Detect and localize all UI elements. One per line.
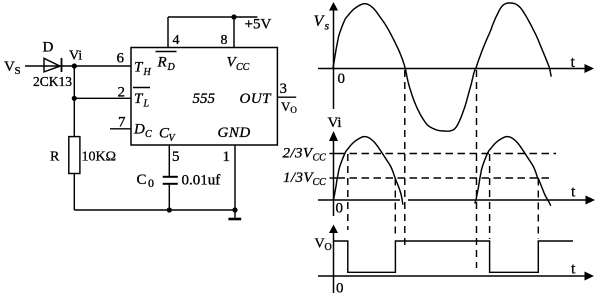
wire stub pin 7 bbox=[110, 128, 131, 130]
label C0 bbox=[137, 172, 155, 190]
svg-text:1/3V: 1/3V bbox=[283, 170, 314, 186]
svg-text:GND: GND bbox=[218, 125, 251, 141]
wire cap to bottom bbox=[168, 184, 170, 210]
svg-text:s: s bbox=[325, 19, 330, 33]
dashed line at Vs rising crossing bbox=[476, 70, 478, 268]
plot Vs label bbox=[314, 13, 330, 33]
junction at ground bbox=[232, 207, 237, 212]
plot Vi vertical axis bbox=[329, 131, 338, 216]
plot Vo label bbox=[315, 237, 332, 254]
svg-text:V: V bbox=[4, 59, 15, 75]
svg-text:0: 0 bbox=[336, 201, 344, 217]
pin TL label bbox=[133, 88, 150, 110]
svg-text:0: 0 bbox=[338, 71, 346, 87]
svg-text:Vi: Vi bbox=[328, 115, 342, 131]
bottom wire bbox=[74, 209, 235, 211]
plot Vi t axis bbox=[318, 196, 595, 205]
svg-text:D: D bbox=[167, 62, 176, 73]
svg-text:CC: CC bbox=[313, 177, 327, 188]
pin 3 wire bbox=[277, 96, 296, 98]
dashed line at first Vs zero crossing bbox=[404, 70, 406, 250]
waveform Vi hump 1 bbox=[334, 137, 403, 205]
waveform Vo square wave bbox=[334, 241, 574, 272]
svg-text:C: C bbox=[137, 172, 147, 188]
dashed line Vo falling edge 1 bbox=[347, 154, 349, 230]
threshold 1/3 Vcc dashed level bbox=[330, 177, 553, 179]
waveform Vs sine bbox=[333, 3, 551, 131]
pin 8 wire bbox=[233, 17, 235, 48]
svg-text:L: L bbox=[143, 99, 150, 110]
node Vi junction bbox=[72, 63, 77, 68]
dashed line Vo rising edge 2 bbox=[537, 179, 539, 240]
pin VCC label bbox=[227, 55, 250, 74]
svg-text:D: D bbox=[43, 40, 54, 56]
svg-text:6: 6 bbox=[117, 51, 125, 67]
svg-text:555: 555 bbox=[193, 91, 216, 107]
svg-text:4: 4 bbox=[173, 33, 180, 48]
dashed line Vo falling edge 2 bbox=[489, 154, 491, 239]
diode D bbox=[44, 58, 62, 72]
svg-text:V: V bbox=[315, 237, 325, 252]
svg-text:7: 7 bbox=[118, 115, 126, 131]
svg-text:CC: CC bbox=[236, 62, 250, 73]
svg-text:0: 0 bbox=[336, 281, 344, 297]
svg-text:2: 2 bbox=[118, 85, 126, 101]
svg-text:8: 8 bbox=[221, 33, 228, 48]
threshold 2/3 Vcc dashed level bbox=[330, 153, 557, 155]
svg-text:D: D bbox=[133, 122, 145, 138]
wire diode to pin 6 bbox=[62, 65, 131, 67]
svg-text:1: 1 bbox=[223, 149, 231, 165]
capacitor C0 bbox=[163, 177, 178, 184]
resistor R bbox=[69, 137, 80, 174]
wire resistor to bottom bbox=[73, 174, 75, 211]
node Vs label bbox=[4, 59, 21, 77]
svg-text:OUT: OUT bbox=[240, 91, 273, 107]
pin RD label bbox=[156, 52, 177, 74]
IC U1 555 timer box bbox=[131, 48, 277, 146]
svg-text:t: t bbox=[571, 261, 576, 278]
pin 4 wire bbox=[167, 17, 169, 48]
svg-text:2CK13: 2CK13 bbox=[33, 74, 72, 89]
label 2/3 Vcc bbox=[283, 146, 327, 164]
svg-text:R: R bbox=[50, 150, 60, 165]
plot Vo vertical axis bbox=[329, 225, 338, 294]
plot Vo t axis bbox=[318, 272, 594, 281]
svg-text:10KΩ: 10KΩ bbox=[82, 150, 117, 165]
svg-text:R: R bbox=[157, 55, 167, 71]
pin TH label bbox=[134, 60, 152, 79]
pin 5 wire bbox=[168, 145, 170, 176]
svg-text:2/3V: 2/3V bbox=[283, 146, 314, 162]
junction at pin 8 top bbox=[231, 14, 236, 19]
wire Vi down to resistor bbox=[73, 66, 75, 137]
svg-text:5: 5 bbox=[172, 149, 180, 165]
pin 1 wire bbox=[234, 145, 236, 210]
svg-text:0.01uf: 0.01uf bbox=[182, 173, 221, 189]
waveform Vi hump 2 bbox=[475, 137, 551, 206]
wire Vs to diode bbox=[25, 65, 62, 67]
dashed line Vo rising edge 1 bbox=[394, 179, 396, 239]
ground bbox=[228, 210, 241, 219]
junction at cap bottom bbox=[167, 207, 172, 212]
svg-text:0: 0 bbox=[148, 176, 154, 190]
svg-text:H: H bbox=[143, 67, 152, 78]
junction at pin2 branch bbox=[72, 96, 77, 101]
svg-text:C: C bbox=[145, 129, 152, 140]
svg-text:t: t bbox=[571, 184, 576, 201]
svg-text:CC: CC bbox=[313, 153, 327, 164]
plot Vs vertical axis bbox=[329, 2, 338, 109]
svg-text:+5V: +5V bbox=[245, 17, 272, 33]
svg-text:O: O bbox=[325, 242, 332, 253]
svg-text:3: 3 bbox=[280, 81, 288, 97]
wire to pin 2 bbox=[74, 97, 131, 99]
pin CV label bbox=[159, 126, 177, 145]
svg-text:t: t bbox=[571, 54, 576, 71]
label 1/3 Vcc bbox=[283, 170, 326, 188]
plot Vs t axis bbox=[318, 64, 594, 73]
top +5V rail wire bbox=[168, 16, 257, 18]
pin DC label bbox=[133, 122, 152, 141]
svg-text:Vi: Vi bbox=[69, 49, 82, 64]
svg-text:S: S bbox=[15, 65, 21, 77]
